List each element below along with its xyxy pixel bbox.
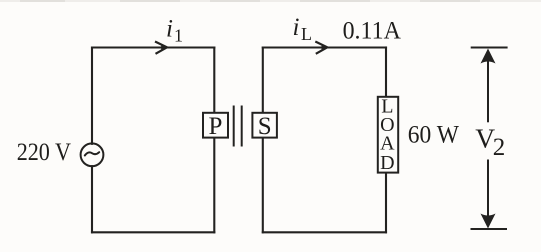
wire secondary right lower [385, 174, 387, 233]
svg-text:S: S [258, 113, 272, 140]
transformer core line left [233, 106, 235, 147]
wire secondary left lower [262, 139, 264, 233]
arrowhead current iL [315, 42, 327, 54]
wire primary top [92, 46, 214, 48]
wire primary left lower [91, 166, 93, 232]
wire secondary top [263, 46, 386, 48]
svg-text:P: P [209, 113, 223, 140]
cropped text remnants top edge [0, 0, 541, 2]
V2 measure top bar [471, 47, 508, 49]
svg-text:60 W: 60 W [408, 120, 460, 149]
wire secondary left upper [262, 48, 264, 113]
svg-text:220 V: 220 V [17, 137, 72, 166]
svg-text:L: L [301, 24, 312, 44]
svg-text:2: 2 [493, 134, 506, 161]
wire secondary bottom [263, 231, 386, 233]
wire secondary right upper [385, 48, 387, 97]
V2 measure bottom bar [471, 228, 508, 230]
svg-text:i: i [166, 16, 173, 43]
V2 measure line upper [487, 60, 489, 122]
wire primary right lower [213, 139, 215, 233]
svg-text:1: 1 [174, 26, 183, 46]
transformer core line right [241, 106, 243, 147]
svg-text:D: D [380, 152, 394, 174]
svg-text:i: i [293, 14, 300, 41]
arrowhead current i1 [155, 42, 167, 54]
transformer secondary box S [252, 113, 277, 138]
AC source 220V [81, 143, 104, 166]
svg-text:0.11A: 0.11A [343, 15, 402, 44]
wire primary left upper [91, 48, 93, 144]
wire primary bottom [92, 231, 214, 233]
V2 arrowhead down [481, 214, 496, 229]
load letters [380, 96, 395, 174]
V2 measure line lower [487, 160, 489, 220]
transformer primary box P [203, 113, 228, 138]
wire primary right upper [213, 48, 215, 113]
V2 arrowhead up [481, 49, 496, 64]
load box [378, 97, 398, 173]
